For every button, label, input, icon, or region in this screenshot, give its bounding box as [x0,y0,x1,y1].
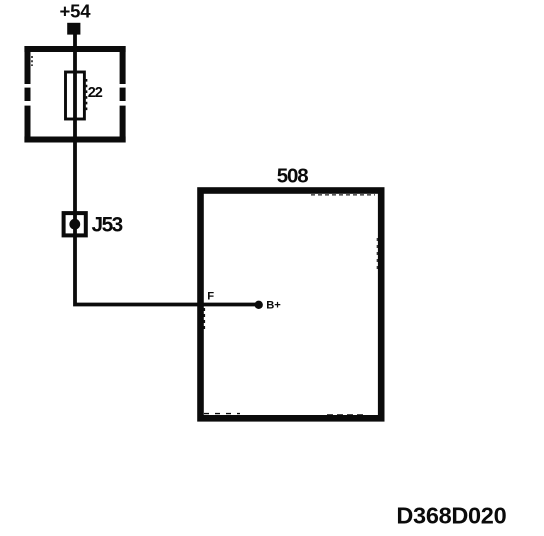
svg-text:B+: B+ [266,299,281,311]
terminal dot B+ [255,301,263,309]
component box 508 [201,191,382,419]
terminal square +54 [67,23,80,35]
svg-text:D368D020: D368D020 [396,503,506,529]
scan artifact left edge below wire [203,308,205,331]
svg-text:508: 508 [277,165,308,188]
relay contact dot [69,219,80,230]
scan artifact inner bottom edge 508 [204,413,240,415]
svg-text:J53: J53 [92,213,123,236]
relay J53 box [64,213,86,235]
fuse 22 symbol [66,72,85,119]
scan artifact inner right edge 508 [376,238,378,272]
scan artifact inside fusebox top-left [31,56,33,66]
scan artifact bottom edge dashes right [327,414,364,416]
svg-text:F: F [207,291,214,303]
svg-text:+54: +54 [60,1,92,22]
scan artifact serration right of fuse [86,79,88,112]
scan artifact inner top edge 508 [311,194,375,196]
svg-text:22: 22 [88,85,103,101]
wire vertical main [75,30,258,305]
fuse box S (dashed enclosure) [24,46,125,143]
